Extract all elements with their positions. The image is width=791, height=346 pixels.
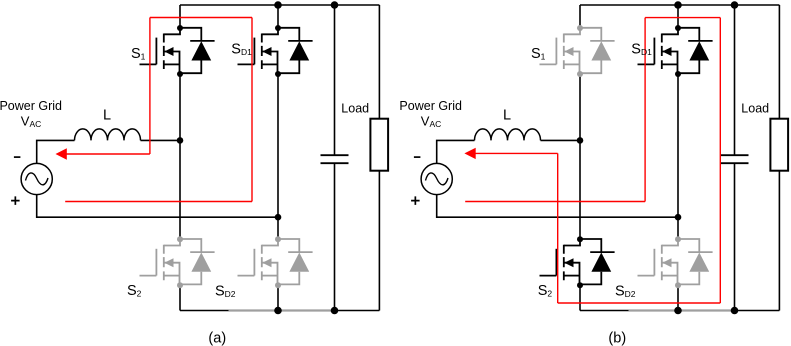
transistor SD2 (b) (MOSFET) [638, 236, 713, 288]
wire: red segment along top rail (a) [150, 17, 252, 19]
transistor SD2 (MOSFET) [238, 236, 313, 288]
wire: SD leg between SD1 source and neutral node (b) [677, 74, 679, 217]
junction: AC neutral node (b) [675, 214, 682, 221]
junction: AC line node (a) [177, 137, 184, 144]
drain pin dot of S2 [177, 236, 183, 242]
source pin dot of SD2 [275, 282, 281, 288]
drain pin dot of S2 (b) [577, 236, 583, 242]
drain pin dot of S1 (b) [577, 25, 583, 31]
wire: S2 source to bottom rail (a) [179, 285, 181, 310]
svg-text:S2: S2 [538, 283, 553, 299]
source pin dot of SD2 (b) [675, 282, 681, 288]
svg-text:L: L [503, 107, 511, 123]
wire: bottom DC rail left part (b) [580, 310, 629, 312]
source pin dot of SD1 (b) [675, 71, 681, 77]
wire: inductor to AC line node (a) [141, 139, 181, 141]
wire: S1 leg top (b) [579, 5, 581, 28]
wire: bottom DC rail right part (a) [335, 310, 380, 312]
label: plus terminal (b) [411, 196, 420, 205]
svg-text:S1: S1 [131, 46, 146, 62]
wire: capacitor bottom leg (b) [734, 163, 736, 310]
body diode of S2 (b) [580, 239, 601, 284]
svg-text:L: L [103, 107, 111, 123]
current direction arrowhead (a) [56, 148, 67, 159]
svg-text:SD1: SD1 [631, 42, 652, 58]
wire: load bottom leg (b) [778, 171, 780, 311]
wire: bottom DC rail grayed segment (b) [629, 309, 735, 311]
wire: S leg between S1 source and AC node (b) [579, 74, 581, 140]
wire: bottom DC rail left part (a) [180, 310, 229, 312]
wire: red segment along SD1 leg (a) [251, 18, 253, 202]
wire: red arrow shaft into source (b) [475, 152, 557, 154]
source pin dot of SD1 [275, 71, 281, 77]
drain pin dot of S1 [177, 25, 183, 31]
current direction arrowhead (b) [464, 148, 475, 159]
drain pin dot of SD1 [275, 25, 281, 31]
source pin dot of S1 [177, 71, 183, 77]
drain pin dot of SD2 [275, 236, 281, 242]
wire: red segment along source bottom (a) [65, 201, 252, 203]
resistor Load (a) [370, 119, 388, 171]
source pin dot of S2 [177, 282, 183, 288]
wire: S2 source to bottom rail (b) [579, 285, 581, 310]
body diode of SD1 (b) [678, 28, 699, 73]
body diode of S2 [180, 239, 201, 284]
wire: red arrow shaft into source (a) [67, 153, 150, 155]
wire: SD2 source to bottom rail (b) [677, 285, 679, 310]
wire: red segment along top (b) [645, 17, 720, 19]
source pin dot of S2 (b) [577, 282, 583, 288]
transistor SD1 (b) (MOSFET) [638, 25, 713, 77]
wire: SD leg between SD1 source and neutral node (a) [277, 74, 279, 217]
svg-text:Power Grid: Power Grid [0, 99, 62, 113]
drain pin dot of SD2 (b) [675, 236, 681, 242]
wire: AC source to inductor (b) [437, 140, 475, 163]
wire: inductor to AC line node (b) [541, 139, 581, 141]
wire: load top leg (b) [778, 5, 780, 119]
wire: red segment along source bottom (b) [465, 201, 645, 203]
label: plus terminal (a) [11, 196, 20, 205]
wire: AC source bottom to neutral node (a) [37, 195, 278, 218]
svg-text:S2: S2 [127, 283, 142, 299]
inductor L (a) [75, 129, 141, 141]
wire: load bottom leg (a) [378, 171, 380, 311]
wire: SD leg between neutral node and SD2 drain (a) [277, 217, 279, 239]
current path (red) loop (a) [65, 18, 252, 202]
svg-text:VAC: VAC [421, 113, 441, 129]
wire: SD1 leg top (b) [677, 5, 679, 28]
transistor SD1 (MOSFET) [238, 25, 313, 77]
wire: S leg between AC node and S2 drain (a) [179, 140, 181, 239]
wire: red segment down along S leg (b) [557, 153, 559, 303]
wire: S leg between AC node and S2 drain (b) [579, 140, 581, 239]
junction: bottom rail / SD2 leg (b) [674, 307, 682, 315]
wire: SD1 leg top (a) [277, 5, 279, 28]
svg-text:Load: Load [741, 102, 769, 116]
junction: AC line node (b) [577, 137, 584, 144]
junction: bottom rail / SD2 leg (a) [274, 307, 282, 315]
source pin dot of S1 (b) [577, 71, 583, 77]
junction: bottom rail / capacitor leg (b) [731, 307, 739, 315]
inductor L (b) [475, 129, 541, 141]
svg-text:Power Grid: Power Grid [399, 99, 462, 113]
drain pin dot of SD1 (b) [675, 25, 681, 31]
capacitor C (a) [321, 155, 349, 163]
body diode of S1 [180, 28, 201, 73]
wire: S1 leg top (a) [179, 5, 181, 28]
wire: bottom DC rail right part (b) [735, 310, 780, 312]
junction: AC neutral node (a) [275, 214, 282, 221]
svg-text:SD2: SD2 [615, 284, 636, 300]
svg-text:(a): (a) [208, 331, 226, 346]
junction: top rail / SD1 leg (b) [674, 1, 682, 9]
junction: top rail / capacitor leg (a) [331, 1, 339, 9]
wire: red segment along bottom (b) [558, 302, 721, 304]
resistor Load (b) [770, 119, 788, 171]
wire: AC source bottom to neutral node (b) [437, 195, 678, 218]
svg-text:SD1: SD1 [231, 42, 252, 58]
AC source VAC (b) [421, 163, 452, 194]
wire: capacitor top leg (b) [734, 5, 736, 155]
svg-text:SD2: SD2 [215, 284, 236, 300]
wire: capacitor top leg (a) [334, 5, 336, 155]
svg-text:VAC: VAC [21, 113, 41, 129]
body diode of S1 (b) [580, 28, 601, 73]
body diode of SD2 (b) [678, 239, 699, 284]
wire: red segment up right side (b) [719, 18, 721, 303]
svg-text:Load: Load [341, 102, 369, 116]
wire: S leg between S1 source and AC node (a) [179, 74, 181, 140]
svg-text:(b): (b) [608, 331, 626, 346]
wire: red segment along SD1 leg (b) [644, 18, 646, 202]
wire: capacitor bottom leg (a) [334, 163, 336, 310]
wire: SD2 source to bottom rail (a) [277, 285, 279, 310]
transistor S1 (MOSFET) [140, 25, 215, 77]
wire: SD leg between neutral node and SD2 drain (b) [677, 217, 679, 239]
wire: load top leg (a) [378, 5, 380, 119]
svg-text:S1: S1 [531, 46, 546, 62]
body diode of SD1 [278, 28, 299, 73]
junction: top rail / SD1 leg (a) [274, 1, 282, 9]
AC source VAC (a) [21, 163, 52, 194]
wire: AC source to inductor (a) [37, 140, 75, 163]
transistor S2 (MOSFET) [140, 236, 215, 288]
label: minus terminal (a) [14, 156, 21, 158]
body diode of SD2 [278, 239, 299, 284]
wire: red segment along S1 leg (a) [149, 18, 151, 155]
current path (red) loop (b) [465, 18, 720, 303]
wire: bottom DC rail grayed segment (a) [229, 309, 335, 311]
label: minus terminal (b) [414, 156, 421, 158]
junction: top rail / capacitor leg (b) [731, 1, 739, 9]
wire: top DC rail (a) [180, 4, 379, 6]
wire: top DC rail (b) [580, 4, 779, 6]
transistor S2 (b) (MOSFET) [540, 236, 615, 288]
capacitor C (b) [721, 155, 749, 163]
transistor S1 (b) (MOSFET) [540, 25, 615, 77]
junction: bottom rail / capacitor leg (a) [331, 307, 339, 315]
